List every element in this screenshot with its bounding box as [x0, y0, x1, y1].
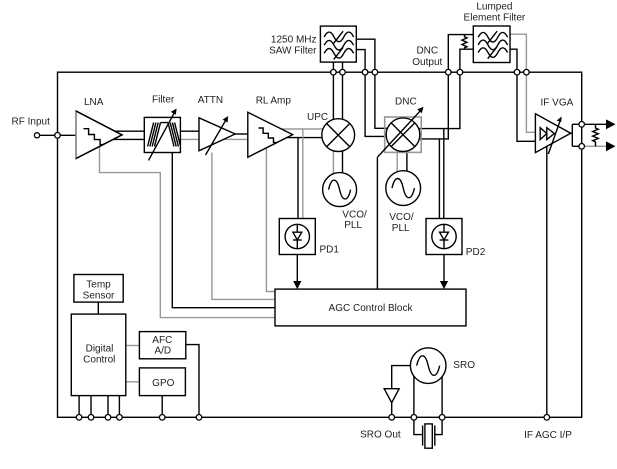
svg-text:1250 MHz: 1250 MHz: [271, 35, 317, 46]
wire IF output lower to arrow (gray): [582, 145, 606, 147]
wire tap to PD1 right (gray): [302, 129, 304, 219]
amplifier LNA: [76, 111, 122, 160]
wire RF input to chip edge and LNA: [40, 134, 77, 136]
svg-text:Filter: Filter: [152, 95, 175, 106]
node IF output upper on right edge: [579, 122, 585, 128]
svg-text:RF Input: RF Input: [12, 117, 51, 128]
wire Digital Control to AFC A/D (gray): [126, 345, 140, 347]
main chip boundary box: [58, 72, 582, 417]
svg-text:Digital: Digital: [86, 344, 114, 355]
node IF AGC I/P pin: [544, 415, 550, 421]
wire SRO to buffer diode: [392, 366, 411, 389]
resistor across Lumped filter input: [462, 35, 467, 50]
Temp Sensor box: [74, 275, 123, 303]
resistor across IF outputs: [593, 124, 599, 146]
node IF output lower on right edge: [579, 144, 585, 150]
wire buffer to SRO Out terminal: [391, 403, 393, 418]
node AFC pin on bottom edge: [196, 415, 202, 421]
svg-text:Output: Output: [412, 57, 442, 68]
wire AFC A/D to bottom edge: [186, 345, 199, 418]
wire tap to PD2 left: [438, 139, 440, 219]
wire UPC up to SAW filter pair: [332, 62, 334, 135]
RF Input terminal: [34, 133, 39, 138]
variable amplifier IF VGA: [535, 114, 570, 154]
power detector PD1: [279, 219, 315, 255]
node lumped filter output pair on top edge: [514, 69, 520, 75]
crystal resonator: [423, 424, 435, 448]
wire DNC tune control down to AGC block: [376, 157, 378, 289]
svg-text:AGC Control Block: AGC Control Block: [329, 303, 414, 314]
svg-text:DNC: DNC: [416, 46, 438, 57]
wire ATTN output to RL Amp: [235, 133, 248, 135]
svg-text:GPO: GPO: [152, 378, 174, 389]
AFC A/D box: [139, 332, 185, 359]
wire RL Amp upper output to UPC (gray): [281, 128, 330, 130]
1250 MHz SAW filter box: [320, 26, 356, 62]
wire Digital Control bottom stubs: [78, 396, 80, 418]
buffer diode at SRO Out: [384, 389, 399, 403]
oscillator VCO/PLL 2: [386, 171, 421, 206]
svg-text:PD2: PD2: [466, 247, 486, 258]
amplifier RL Amp: [248, 112, 293, 157]
IF output lower arrow: [606, 141, 616, 151]
mixer UPC: [322, 119, 355, 152]
wire IF AGC I/P up to IF VGA: [546, 147, 548, 418]
node RF input on chip edge: [55, 133, 61, 139]
mixer DNC with gray frame: [377, 107, 423, 158]
arrow PD2 to AGC block: [440, 255, 448, 290]
Lumped Element Filter box: [473, 26, 510, 63]
AGC Control Block box: [275, 289, 466, 326]
wire LNA gain control to AGC block (gray): [100, 147, 276, 318]
wire bus up to Lumped Element Filter left upper: [448, 35, 473, 73]
wire LNA output pair to Filter: [115, 130, 144, 132]
wire IF VGA output fork to edge terminals: [571, 132, 573, 134]
IF output upper arrow: [606, 119, 616, 129]
node DNC output pair on top edge: [446, 69, 452, 75]
svg-text:UPC: UPC: [307, 112, 328, 123]
wire RL Amp control to AGC block (gray): [266, 148, 275, 292]
svg-text:Temp: Temp: [86, 280, 111, 291]
wire DNC lower output to bus: [403, 72, 448, 139]
node SAW output pair on top edge: [362, 69, 368, 75]
svg-text:LNA: LNA: [84, 97, 104, 108]
svg-text:SRO: SRO: [453, 360, 475, 371]
svg-text:AFC: AFC: [152, 335, 172, 346]
wire SAW upper output to DNC: [356, 39, 403, 128]
oscillator VCO/PLL 1: [323, 173, 357, 207]
svg-text:Element Filter: Element Filter: [464, 12, 526, 23]
wire Filter tune control to AGC block: [172, 153, 275, 308]
svg-text:A/D: A/D: [154, 346, 171, 357]
wire GPO bottom stub: [161, 396, 163, 418]
GPO box: [139, 368, 185, 396]
wire SRO to crystal left: [414, 376, 423, 434]
svg-text:SAW Filter: SAW Filter: [269, 46, 317, 57]
wire Temp Sensor to Digital Control: [97, 302, 99, 314]
svg-text:PLL: PLL: [344, 220, 362, 231]
svg-text:SRO Out: SRO Out: [360, 430, 401, 441]
tunable bandpass Filter: [144, 109, 180, 161]
node digital control pins on bottom edge: [76, 415, 82, 421]
node crystal pins on bottom edge: [411, 415, 417, 421]
svg-text:Control: Control: [83, 354, 115, 365]
node SRO Out pin: [389, 415, 395, 421]
wire Lumped filter right lower to IF VGA: [510, 49, 535, 141]
wire DNC down to VCO2 pair: [396, 134, 398, 185]
wire UPC down to VCO1 pair: [332, 135, 334, 185]
svg-text:RL Amp: RL Amp: [256, 95, 292, 106]
wire DNC upper output to bus: [403, 72, 460, 128]
node SAW input pair on top edge: [331, 69, 337, 75]
wire bus up to Lumped Element Filter left lower: [460, 49, 473, 72]
WIRES-LAYER: [40, 34, 607, 434]
Digital Control box: [71, 314, 126, 396]
wire IF output upper to arrow: [582, 123, 606, 125]
node GPO pin on bottom edge: [159, 415, 165, 421]
variable attenuator ATTN: [199, 116, 235, 155]
svg-text:Sensor: Sensor: [83, 290, 115, 301]
svg-text:DNC: DNC: [395, 96, 417, 107]
wire Lumped filter right upper to IF VGA (gray): [510, 34, 535, 132]
wire Filter lower output to RL Amp (gray): [180, 138, 247, 140]
arrow PD1 to AGC block: [293, 255, 301, 290]
wire SAW lower output to DNC: [356, 50, 403, 137]
JUNCTIONS-LAYER: [55, 69, 585, 420]
svg-text:PD1: PD1: [320, 244, 340, 255]
svg-text:IF AGC I/P: IF AGC I/P: [524, 430, 572, 441]
wire Filter output to ATTN: [180, 130, 199, 132]
oscillator SRO: [410, 348, 446, 384]
svg-text:IF VGA: IF VGA: [541, 98, 574, 109]
power detector PD2: [426, 219, 462, 255]
wire RL Amp lower output to UPC: [287, 137, 330, 139]
wire ATTN control to AGC block (gray): [212, 153, 275, 300]
wire tap to PD2 right: [443, 129, 445, 219]
wire tap to PD1 left: [297, 138, 299, 219]
wire SRO to crystal right: [435, 377, 442, 435]
svg-text:Lumped: Lumped: [476, 1, 512, 12]
svg-text:PLL: PLL: [392, 223, 410, 234]
svg-text:VCO/: VCO/: [389, 212, 414, 223]
wire Digital Control to GPO (gray): [126, 381, 140, 383]
svg-text:ATTN: ATTN: [198, 95, 223, 106]
